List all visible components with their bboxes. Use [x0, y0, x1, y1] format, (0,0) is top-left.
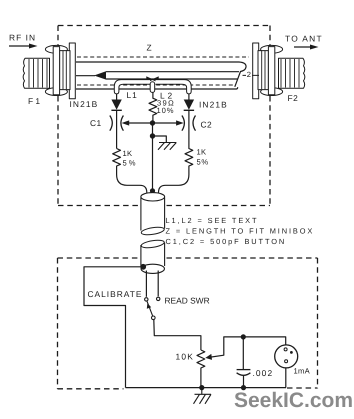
wire: D1 to C1 — [116, 110, 118, 148]
svg-text:2: 2 — [247, 70, 252, 79]
wire: pole to 10K — [154, 320, 201, 351]
diode D2 1N21B — [184, 100, 194, 110]
svg-text:C1: C1 — [90, 118, 102, 128]
coax braid hatching — [77, 57, 249, 85]
shielded cable lower section — [140, 245, 142, 266]
junction: shield to ground wire — [140, 264, 146, 270]
capacitor C3 .002 — [242, 337, 244, 369]
switch S1 pole — [152, 316, 156, 320]
connector F1 — [23, 43, 75, 99]
svg-text:READ SWR: READ SWR — [165, 296, 210, 306]
center conductor clamp — [146, 77, 152, 83]
shielded cable upper section — [140, 198, 142, 231]
svg-text:L1: L1 — [127, 90, 138, 100]
RF IN arrow — [9, 45, 31, 47]
wire: wiper node to meter — [243, 337, 285, 345]
switch S1 contact (read swr) — [157, 297, 160, 300]
svg-text:SeekIC.com: SeekIC.com — [234, 389, 353, 412]
pickup line L1 (tube) — [114, 80, 150, 94]
capacitor C1 (button, feedthrough arcs) — [110, 116, 113, 131]
resistor R3 1K 5% (right) — [159, 147, 193, 195]
svg-text:Z: Z — [147, 43, 153, 53]
pickup line L2 (tube) — [156, 80, 192, 94]
svg-text:Z = LENGTH TO FIT MINIBOX: Z = LENGTH TO FIT MINIBOX — [166, 227, 315, 236]
svg-text:1K: 1K — [197, 148, 207, 157]
capacitor C2 (button, feedthrough arcs) — [182, 116, 185, 131]
wire: cable conductor to calibrate contact — [145, 271, 147, 297]
connector F2 — [253, 43, 305, 99]
diode D1 1N21B — [111, 100, 121, 110]
bus arrowhead right — [176, 120, 184, 125]
svg-text:F2: F2 — [288, 93, 299, 103]
svg-text:10%: 10% — [157, 106, 175, 115]
svg-text:L1,L2 = SEE TEXT: L1,L2 = SEE TEXT — [166, 216, 259, 225]
ground rail wire — [126, 387, 287, 389]
wire: bus junction down — [152, 123, 154, 191]
wire: cable conductor to read contact — [157, 271, 159, 297]
wiper arrow of 10K — [208, 337, 243, 358]
svg-text:.002: .002 — [253, 368, 274, 378]
center tap tube — [150, 82, 155, 93]
lower dashed box — [58, 258, 318, 389]
svg-text:IN21B: IN21B — [70, 99, 99, 109]
potentiometer R4 10K — [197, 350, 205, 388]
junction: 10K bottom — [199, 385, 204, 390]
svg-text:RF IN: RF IN — [9, 33, 36, 43]
coax center strip Z — [106, 71, 239, 73]
switch S1 contact (calibrate) — [145, 298, 148, 301]
wire: L1 to D1 — [116, 94, 118, 100]
coax line Z: outer conductor — [76, 61, 239, 63]
svg-text:F1: F1 — [28, 96, 42, 106]
TO ANT arrow — [294, 46, 312, 48]
wire: D2 to C2 — [188, 110, 190, 146]
svg-text:5%: 5% — [123, 159, 138, 168]
junction at ground tap — [150, 133, 155, 138]
ground (chassis) lower — [194, 388, 212, 404]
svg-text:1K: 1K — [123, 149, 133, 158]
svg-text:5%: 5% — [197, 158, 209, 167]
svg-text:1mA: 1mA — [294, 367, 311, 376]
bus arrowhead left — [122, 120, 130, 125]
junction on bus — [150, 120, 155, 125]
center pin lead from F1 — [76, 75, 95, 77]
ground bus between C1 and C2 — [128, 122, 178, 124]
switch S1 arm — [147, 301, 153, 316]
wire: ground tap — [153, 136, 167, 142]
junction: wiper node — [241, 334, 246, 339]
wire: center pin to F2 — [243, 74, 260, 76]
svg-text:CALIBRATE: CALIBRATE — [88, 289, 143, 299]
strip left arrow tip — [94, 71, 106, 79]
svg-text:TO ANT: TO ANT — [285, 34, 323, 44]
svg-text:IN21B: IN21B — [199, 100, 228, 110]
wire: shield ground return — [84, 267, 143, 388]
junction: C3 bottom — [241, 385, 246, 390]
minibox enclosure (upper dashed box) — [58, 26, 270, 206]
resistor R2 1K 5% (left) — [113, 149, 147, 195]
svg-text:10K: 10K — [176, 352, 195, 362]
junction at cable mouth — [150, 188, 155, 193]
meter M1 1mA — [275, 345, 298, 368]
wire: meter to ground rail — [285, 368, 287, 388]
ground (chassis) upper — [158, 143, 176, 150]
resistor R1 39 ohm 10% — [149, 92, 157, 123]
svg-text:C2: C2 — [201, 120, 213, 130]
wire: L2 to D2 — [188, 94, 190, 100]
svg-text:C1,C2 = 500pF BUTTON: C1,C2 = 500pF BUTTON — [166, 237, 287, 246]
